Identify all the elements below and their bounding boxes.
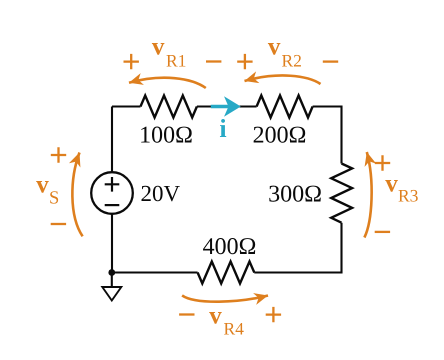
vR2 minus sign bbox=[323, 60, 338, 62]
vR3 plus sign bbox=[375, 155, 390, 170]
junction node dot bbox=[108, 269, 115, 276]
ground triangle bbox=[102, 287, 121, 301]
label 400ohm bbox=[203, 238, 255, 254]
vS arc arrow bbox=[72, 153, 82, 237]
ground stub bbox=[111, 273, 113, 288]
vR4 minus sign bbox=[179, 313, 194, 315]
wire between R1 and R2 bbox=[197, 105, 257, 107]
current arrow i (cyan) head bbox=[224, 96, 241, 116]
current label i bbox=[220, 119, 226, 137]
vR2 plus sign bbox=[237, 54, 252, 69]
label 100ohm bbox=[141, 127, 191, 143]
left wire bottom (source to bottom wire) bbox=[111, 214, 113, 273]
vR4 label bbox=[209, 312, 222, 324]
voltage source VS circle bbox=[91, 172, 133, 214]
label 20V bbox=[142, 186, 180, 202]
resistor R1 bbox=[141, 96, 197, 118]
vR1 arc arrow bbox=[129, 78, 206, 88]
vR2 label bbox=[268, 43, 281, 55]
label 200ohm bbox=[254, 127, 306, 143]
wire top segment right + right wire upper bbox=[313, 107, 342, 164]
label 300ohm bbox=[269, 186, 320, 202]
current arrow i (cyan) shaft bbox=[211, 105, 231, 109]
vR3 label bbox=[385, 180, 398, 192]
vS minus sign bbox=[51, 223, 66, 225]
minus sign inside source bbox=[105, 204, 120, 206]
resistor R2 bbox=[257, 96, 313, 118]
resistor R4 bbox=[198, 262, 255, 284]
vR3 arc arrow bbox=[364, 152, 371, 238]
right wire lower + bottom wire right bbox=[254, 223, 341, 273]
plus sign inside source bbox=[105, 177, 120, 192]
vR1 label bbox=[152, 43, 165, 55]
vR1 plus sign bbox=[124, 54, 139, 69]
vS label bbox=[36, 181, 49, 193]
vR1 minus sign bbox=[206, 60, 221, 62]
bottom wire left bbox=[112, 271, 198, 273]
left wire top (into source) bbox=[111, 107, 113, 173]
vR2 arc arrow bbox=[245, 76, 321, 84]
wire top segment left bbox=[112, 105, 141, 107]
vR4 plus sign bbox=[266, 307, 281, 322]
vS plus sign bbox=[51, 147, 66, 162]
vR4 arc arrow bbox=[182, 295, 268, 301]
resistor R3 bbox=[331, 164, 352, 223]
vR3 minus sign bbox=[375, 231, 390, 233]
